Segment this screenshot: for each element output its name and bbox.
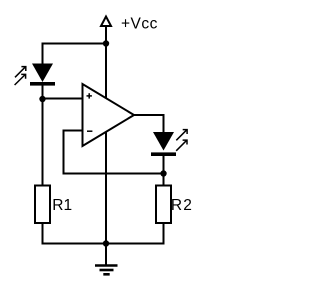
- wire: feedback vertical segment: [63, 130, 65, 175]
- op-amp U1: [83, 84, 135, 146]
- light arrows out of D2: [176, 130, 187, 151]
- photodiode D1: [30, 64, 55, 86]
- svg-text:R2: R2: [171, 197, 193, 214]
- wire: left branch down to photodiode anode: [42, 43, 44, 65]
- wire: R1 bottom to ground rail: [42, 223, 44, 245]
- wire: photodiode cathode down to R1: [42, 85, 44, 185]
- resistor R1: [35, 186, 50, 224]
- node: junction dot photodiode/R1/op-amp + input: [39, 96, 45, 102]
- LED D2: [151, 132, 176, 156]
- +Vcc power symbol: [101, 17, 111, 45]
- svg-text:+Vcc: +Vcc: [121, 15, 158, 32]
- wire: + input of op-amp: [43, 98, 85, 100]
- light arrows into D1: [15, 67, 26, 85]
- node: junction dot LED/R2/feedback: [160, 170, 166, 176]
- wire: feedback horizontal segment to LED/R2 node: [63, 173, 164, 175]
- node: Vcc junction dot: [103, 40, 109, 46]
- wire: top rail from Vcc node to left branch: [43, 43, 107, 45]
- ground symbol: [95, 244, 118, 275]
- wire: LED cathode down to R2: [163, 155, 165, 185]
- wire: op-amp output to LED anode: [134, 115, 164, 133]
- wire: V- power pin from op-amp bottom edge down to ground rail: [105, 130, 107, 244]
- wire: R2 bottom to ground rail: [163, 223, 165, 245]
- wire: bottom ground rail: [43, 243, 164, 245]
- node: ground junction dot: [103, 240, 109, 246]
- wire: V+ power pin from Vcc node down into op-amp top edge: [105, 44, 107, 101]
- svg-text:R1: R1: [52, 197, 72, 214]
- wire: - input stub of op-amp: [63, 130, 85, 132]
- resistor R2: [156, 186, 171, 224]
